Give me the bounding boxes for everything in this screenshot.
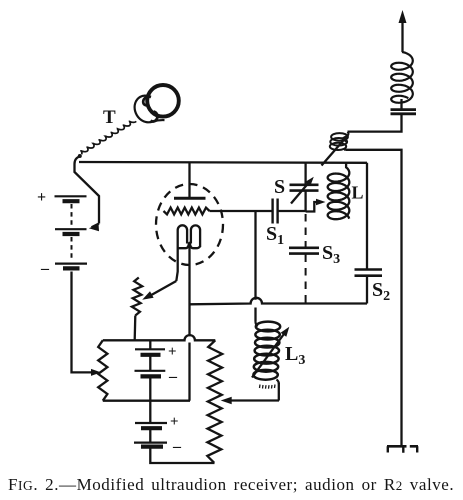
wire S bottom lead: [304, 192, 306, 212]
R2 slider arrowhead: [91, 369, 101, 376]
wire filament right leg: [188, 243, 190, 336]
rheostat R1 arrowhead: [142, 291, 153, 300]
wire bottom rail: [190, 298, 368, 305]
rheostat R3 arrowhead: [221, 397, 232, 404]
inductor L3 hatching: [260, 385, 276, 389]
wire B2 mid lead: [149, 357, 151, 371]
svg-text:+: +: [168, 344, 177, 360]
battery B1 cell 2: [55, 228, 87, 230]
wire box bottom line: [103, 400, 190, 402]
node T junction: [78, 154, 82, 158]
battery B3 cell 2: [134, 442, 167, 444]
wire B3 top lead: [149, 401, 151, 423]
ground symbol: [387, 445, 418, 448]
rheostat R3 zigzag: [207, 340, 222, 463]
capacitor S2: [355, 268, 383, 271]
wire B2 bottom lead: [149, 378, 151, 401]
antenna arrow: [401, 16, 403, 52]
svg-text:+: +: [170, 414, 179, 430]
svg-text:S2: S2: [372, 279, 390, 304]
wire tap step to L: [306, 202, 320, 212]
wire S1 right to junction: [278, 210, 306, 212]
telephone earcap hook bottom: [151, 112, 158, 122]
antenna series capacitor: [391, 108, 417, 111]
wire L3 to R3 slider: [227, 399, 279, 401]
wire coupling coil to ground line: [346, 150, 402, 446]
wire plate top rail: [79, 161, 367, 164]
svg-text:FIG. 2.—Modified ultraudion re: FIG. 2.—Modified ultraudion receiver; au…: [8, 475, 454, 494]
capacitor S3: [289, 247, 319, 250]
svg-text:S1: S1: [266, 223, 284, 248]
wire antenna cap down and left: [348, 115, 402, 132]
wire S top lead: [304, 163, 306, 184]
wire L3 bottom leg: [278, 383, 280, 401]
battery B3 cell 1: [135, 422, 167, 424]
svg-text:S3: S3: [322, 242, 340, 267]
battery B1 cell 1: [55, 195, 87, 197]
inductor L3 variable arrow: [252, 331, 287, 378]
battery B1 link dashed 2: [71, 237, 73, 260]
telephone receiver T body: [147, 85, 179, 117]
coupling coil variable arrow: [322, 137, 347, 166]
wire B3 mid lead: [149, 430, 151, 442]
svg-text:–: –: [168, 368, 178, 385]
wire B3 bottom: [150, 449, 214, 464]
valve plate lead: [188, 162, 190, 198]
antenna loading coil: [391, 52, 413, 103]
wire B2 top lead: [149, 340, 151, 349]
capacitor S1: [271, 199, 273, 224]
svg-text:T: T: [103, 107, 116, 128]
wire R1 to box: [134, 316, 137, 341]
wire grid junction to L3: [254, 211, 256, 300]
telephone receiver earcap: [135, 96, 165, 123]
svg-text:L3: L3: [285, 343, 305, 368]
wire box top line: [103, 335, 216, 340]
wire box right leg: [188, 400, 190, 402]
wire B1 to rheostat arrow: [72, 272, 97, 373]
wire T junction to battery tap: [75, 156, 100, 224]
battery B2 cell 2: [135, 370, 166, 372]
inductor L3 coil: [256, 322, 280, 332]
svg-text:–: –: [40, 260, 50, 277]
svg-text:S: S: [274, 176, 285, 198]
rheostat R2 zigzag: [98, 340, 107, 400]
valve grid zigzag: [164, 208, 210, 215]
telephone earcap hook top: [143, 97, 151, 106]
wire tank right edge lower: [366, 277, 368, 304]
wire grid to S1: [210, 210, 273, 212]
valve envelope (dashed ellipse): [156, 184, 223, 265]
wire antenna coil to cap: [400, 99, 402, 109]
wire twisted cord: [81, 121, 136, 154]
wire dashed (S to bottom rail): [305, 214, 307, 304]
valve plate: [174, 197, 206, 200]
rheostat R1 zigzag: [132, 278, 142, 316]
svg-text:+: +: [37, 189, 46, 206]
wire filament left leg to rheostat: [146, 281, 176, 298]
valve filament loops: [176, 225, 187, 281]
capacitor S variable arrow: [291, 180, 311, 204]
battery B1 cell 3: [55, 263, 87, 265]
inductor L coil: [328, 163, 350, 219]
capacitor S plates: [290, 184, 319, 187]
coupling coil: [331, 133, 348, 141]
battery B1 link dashed 1: [71, 204, 73, 226]
tap arrowhead into L: [316, 199, 326, 205]
battery tap arrowhead: [92, 224, 100, 228]
svg-text:L: L: [352, 183, 364, 203]
svg-text:–: –: [172, 438, 182, 455]
wire tank right edge upper: [366, 163, 368, 269]
battery B2 cell 1: [135, 348, 165, 350]
